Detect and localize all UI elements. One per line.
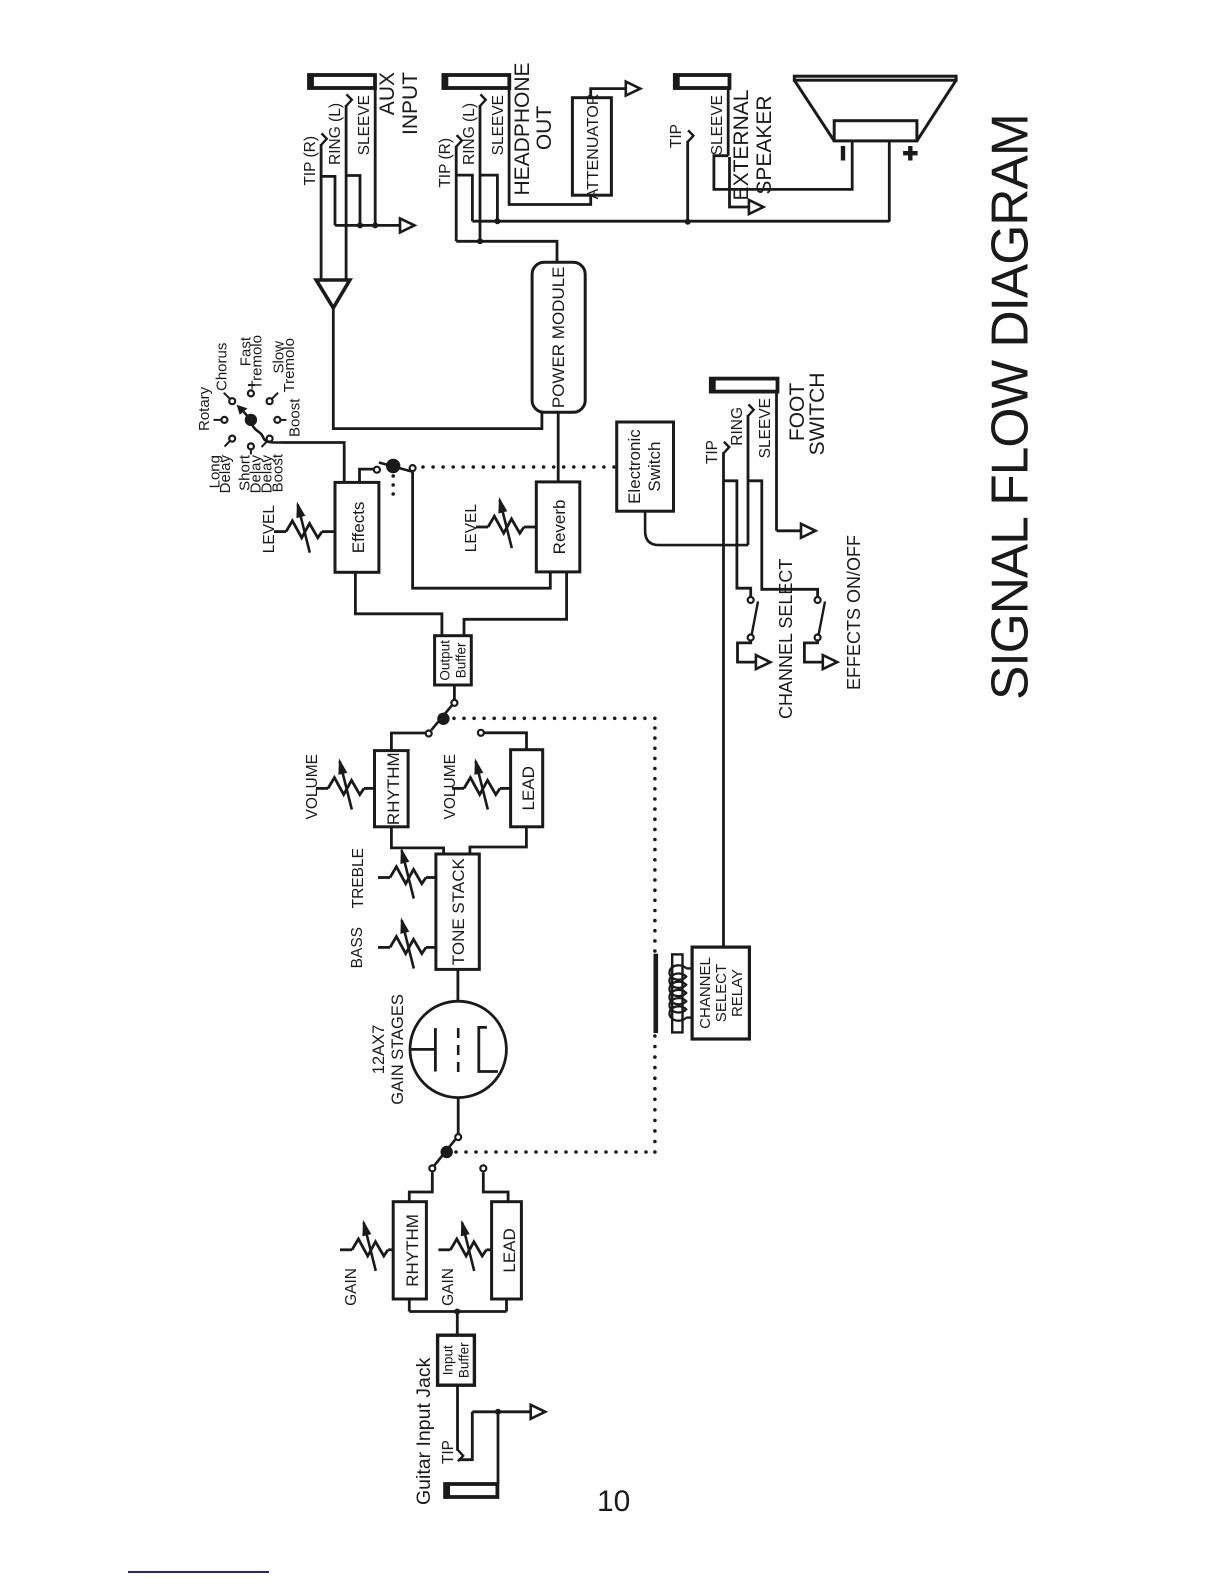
headphone tip contact bbox=[456, 135, 462, 147]
effects bypass switch pivot dot bbox=[386, 459, 400, 473]
potentiometer GAIN bbox=[340, 1248, 352, 1251]
blue underline mark bbox=[128, 1571, 269, 1573]
ground arrow (effects on/off switch) bbox=[823, 655, 838, 669]
effects bypass switch contacts bbox=[374, 467, 380, 473]
svg-text:HEADPHONE: HEADPHONE bbox=[511, 62, 534, 195]
svg-text:GAIN: GAIN bbox=[440, 1268, 457, 1306]
input channel switch pivot dot bbox=[441, 1146, 453, 1158]
svg-text:SIGNAL FLOW DIAGRAM: SIGNAL FLOW DIAGRAM bbox=[981, 114, 1039, 700]
speaker cone bbox=[794, 80, 834, 141]
wire: foot switch sleeve bbox=[775, 391, 778, 531]
svg-text:INPUT: INPUT bbox=[399, 72, 422, 135]
svg-text:Electronic: Electronic bbox=[625, 429, 644, 504]
junction dot headphone ring tap bbox=[477, 238, 483, 244]
aux input jack plug bbox=[309, 75, 375, 88]
mech dotted link relay to input switch bbox=[653, 1034, 657, 1038]
effects on/off manual switch bbox=[815, 597, 821, 603]
wire: headphone ring jog bbox=[480, 175, 497, 221]
svg-text:SWITCH: SWITCH bbox=[806, 373, 829, 456]
wire: to rhythm gain box bbox=[408, 1299, 411, 1312]
wire: ext speaker sleeve bbox=[727, 88, 730, 156]
12AX7 grid lead bbox=[410, 1048, 435, 1051]
rotary selector pivot dot bbox=[245, 414, 257, 426]
rotary contact Fast Tremolo bbox=[248, 390, 254, 396]
wire: sleeve to speaker minus bbox=[714, 141, 852, 190]
wire: switch to output buffer bbox=[453, 685, 456, 700]
wire: guitar tip to input buffer bbox=[456, 1385, 459, 1450]
guitar input jack plug bbox=[445, 1484, 497, 1497]
potentiometer TREBLE bbox=[378, 876, 390, 879]
svg-text:CHANNEL: CHANNEL bbox=[697, 957, 714, 1029]
foot switch tip contact bbox=[724, 442, 730, 454]
mech dots below pivot bbox=[391, 474, 395, 478]
svg-text:LEVEL: LEVEL bbox=[463, 504, 480, 553]
wire: headphone sleeve to attenuator bbox=[509, 88, 591, 205]
wire: headphone tip line bbox=[455, 146, 458, 242]
svg-text:TIP: TIP bbox=[440, 1440, 457, 1464]
wire: rhythm gain to channel switch bbox=[409, 1172, 432, 1201]
junction dot gain splitter bbox=[454, 1309, 460, 1315]
wire: aux sleeve bbox=[374, 88, 377, 225]
svg-text:RHYTHM: RHYTHM bbox=[403, 1214, 422, 1287]
svg-text:SPEAKER: SPEAKER bbox=[753, 95, 776, 194]
label minus terminal bbox=[841, 146, 845, 161]
external speaker jack plug bbox=[675, 75, 730, 88]
svg-text:Boost: Boost bbox=[286, 398, 303, 437]
wire: lead volume to output switch bbox=[484, 733, 527, 750]
junction dot ext speaker tip bbox=[685, 219, 691, 225]
wire: reverb to power module bbox=[557, 412, 560, 482]
channel select relay box bbox=[692, 947, 749, 1039]
svg-text:Tremolo: Tremolo bbox=[248, 335, 265, 389]
wire: output buffer to reverb bbox=[464, 572, 567, 636]
wire: aux ground rail bbox=[335, 224, 400, 227]
ground arrow (guitar jack) bbox=[531, 1405, 546, 1419]
ground arrow (foot switch) bbox=[801, 524, 816, 538]
input channel select switch contacts bbox=[429, 1165, 435, 1171]
aux tip contact bbox=[321, 133, 327, 145]
wire: aux mix into power module bbox=[333, 308, 542, 429]
rotary contact Delay Boost bbox=[267, 436, 273, 442]
wire: guitar ground rail bbox=[472, 1410, 530, 1413]
junction dot headphone jog rail bbox=[494, 218, 500, 224]
headphone jack plug bbox=[443, 75, 509, 88]
12AX7 tube circle bbox=[410, 1001, 506, 1097]
rotary effects selector wire bbox=[252, 424, 281, 443]
wire: foot ring line bbox=[747, 415, 750, 545]
svg-text:Input: Input bbox=[441, 1345, 456, 1375]
wire: aux ring shunt jog bbox=[346, 176, 360, 226]
dotted control line to electronic switch bbox=[421, 465, 425, 469]
input buffer box bbox=[438, 1335, 475, 1385]
potentiometer BASS bbox=[378, 946, 390, 949]
svg-text:VOLUME: VOLUME bbox=[304, 754, 321, 819]
potentiometer LEVEL bbox=[274, 530, 286, 533]
svg-text:EFFECTS ON/OFF: EFFECTS ON/OFF bbox=[844, 535, 864, 690]
electronic switch box bbox=[617, 422, 674, 511]
foot switch ring contact bbox=[748, 404, 754, 416]
wire: tone stack to rhythm volume bbox=[391, 827, 443, 854]
wire: dry bypass rail bbox=[413, 472, 551, 589]
svg-text:Boost: Boost bbox=[269, 453, 286, 492]
svg-text:Effects: Effects bbox=[349, 502, 368, 554]
wire: sleeve to ground bbox=[730, 157, 749, 207]
svg-text:TONE STACK: TONE STACK bbox=[449, 858, 468, 966]
svg-text:SELECT: SELECT bbox=[713, 964, 730, 1022]
svg-text:TIP: TIP bbox=[668, 124, 685, 148]
svg-text:LEAD: LEAD bbox=[500, 1228, 519, 1272]
12AX7 internal dashed divider bbox=[457, 1028, 460, 1072]
ground arrow (attenuator) bbox=[626, 82, 641, 96]
svg-text:SLEEVE: SLEEVE bbox=[490, 95, 507, 155]
svg-text:POWER MODULE: POWER MODULE bbox=[549, 266, 568, 408]
wire: rhythm volume to output switch bbox=[391, 733, 425, 751]
wire: switch to 12AX7 bbox=[457, 1098, 460, 1135]
potentiometer GAIN bbox=[438, 1248, 450, 1251]
svg-text:RING (L): RING (L) bbox=[461, 103, 478, 165]
ground arrow (ext speaker) bbox=[749, 200, 764, 214]
rhythm gain box bbox=[393, 1202, 426, 1299]
effects box bbox=[335, 482, 379, 572]
svg-text:SLEEVE: SLEEVE bbox=[356, 95, 373, 155]
wire: power module output bbox=[456, 241, 557, 262]
svg-text:GAIN: GAIN bbox=[343, 1268, 360, 1306]
svg-text:OUT: OUT bbox=[533, 106, 556, 151]
wire: sleeve down to ground bbox=[777, 529, 802, 532]
wire: headphone ring line bbox=[479, 105, 482, 241]
junction dot aux ring shunt bbox=[357, 222, 363, 228]
wire: foot tip jog to channel switch bbox=[724, 481, 751, 597]
wire: foot tip to relay bbox=[722, 452, 725, 947]
12AX7 grid bar bbox=[434, 1028, 437, 1071]
relay core bar bbox=[672, 954, 682, 1032]
wire: aux tip shunt jog bbox=[321, 176, 335, 225]
wire: guitar tip shunt jog bbox=[459, 1412, 473, 1460]
junction dot aux sleeve bbox=[372, 222, 378, 228]
output channel switch arm bbox=[431, 706, 452, 731]
guitar jack tip contact bbox=[458, 1450, 464, 1462]
rotary contact Chorus bbox=[229, 398, 235, 404]
input channel switch arm bbox=[434, 1140, 455, 1166]
svg-text:Delay: Delay bbox=[247, 455, 264, 494]
tone stack box bbox=[436, 854, 479, 969]
svg-text:LEVEL: LEVEL bbox=[261, 505, 278, 554]
svg-text:Buffer: Buffer bbox=[454, 642, 469, 678]
svg-text:Chorus: Chorus bbox=[214, 343, 231, 391]
relay armature thick bar bbox=[654, 954, 659, 1033]
svg-text:TREBLE: TREBLE bbox=[350, 848, 367, 908]
svg-text:12AX7: 12AX7 bbox=[370, 1025, 388, 1075]
wire: ring to electronic switch bbox=[645, 511, 748, 545]
rhythm volume box bbox=[375, 751, 409, 827]
rotary contact Short Delay bbox=[248, 443, 254, 449]
svg-text:Switch: Switch bbox=[645, 442, 664, 492]
output buffer box bbox=[435, 636, 472, 685]
12AX7 plate bracket bbox=[479, 1027, 498, 1071]
wire: attenuator to ground bbox=[591, 89, 626, 98]
svg-text:RHYTHM: RHYTHM bbox=[384, 752, 403, 825]
rotary contact Rotary bbox=[221, 417, 227, 423]
wire: guitar sleeve to ground rail bbox=[497, 1412, 500, 1484]
wire: 12AX7 to tone stack bbox=[456, 969, 459, 1001]
ground arrow (aux jack) bbox=[400, 218, 415, 232]
svg-text:BASS: BASS bbox=[349, 927, 366, 968]
junction dot guitar sleeve/ground bbox=[495, 1409, 501, 1415]
svg-text:ATTENUATOR: ATTENUATOR bbox=[585, 94, 602, 200]
rotary contact Slow Tremolo bbox=[267, 398, 273, 404]
svg-text:TIP: TIP bbox=[704, 440, 721, 464]
svg-text:VOLUME: VOLUME bbox=[442, 754, 459, 819]
reverb box bbox=[536, 482, 580, 572]
svg-text:Buffer: Buffer bbox=[457, 1342, 472, 1378]
wire: input buffer to gain junction bbox=[456, 1312, 459, 1336]
wire: ext speaker tip line bbox=[686, 141, 689, 222]
rotary contact Long Delay bbox=[229, 436, 235, 442]
headphone ring contact bbox=[480, 94, 486, 106]
output channel switch pivot dot bbox=[437, 713, 449, 725]
svg-text:TIP (R): TIP (R) bbox=[302, 136, 319, 186]
wire: gain splitter rail bbox=[409, 1310, 506, 1313]
lead volume box bbox=[511, 750, 543, 827]
rotary selector arm arrow bbox=[244, 412, 251, 420]
relay coil bbox=[686, 967, 692, 969]
svg-text:Guitar Input Jack: Guitar Input Jack bbox=[413, 1357, 435, 1505]
aux ring contact bbox=[346, 94, 352, 106]
speaker rim bbox=[794, 76, 956, 80]
svg-text:Reverb: Reverb bbox=[550, 499, 569, 554]
ground arrow (channel select switch) bbox=[756, 655, 771, 669]
svg-text:RING: RING bbox=[729, 407, 746, 446]
svg-text:SLEEVE: SLEEVE bbox=[757, 398, 774, 458]
label plus terminal bbox=[908, 146, 912, 161]
effects bypass switch arm bbox=[379, 463, 412, 472]
svg-text:CHANNEL SELECT: CHANNEL SELECT bbox=[776, 559, 796, 719]
aux summing amp triangle bbox=[316, 280, 350, 308]
svg-text:Output: Output bbox=[438, 640, 453, 681]
ext speaker tip contact bbox=[688, 130, 694, 142]
wire: lead gain to channel switch bbox=[483, 1172, 508, 1201]
svg-text:Tremolo: Tremolo bbox=[281, 338, 298, 392]
wire: tone stack to lead volume bbox=[470, 827, 527, 854]
lead gain box bbox=[492, 1202, 522, 1299]
svg-text:SLEEVE: SLEEVE bbox=[709, 95, 726, 155]
svg-text:GAIN STAGES: GAIN STAGES bbox=[389, 994, 407, 1105]
wire: headphone tip jog bbox=[456, 175, 472, 221]
power module box bbox=[532, 262, 585, 412]
wire: foot ring jog to effects switch bbox=[748, 481, 818, 597]
wire: to lead gain box bbox=[505, 1299, 508, 1312]
page number bbox=[597, 1485, 630, 1519]
speaker magnet bbox=[834, 121, 917, 141]
potentiometer LEVEL bbox=[476, 526, 488, 529]
wire: effects out to bypass switch bbox=[360, 469, 374, 482]
wire: aux tip to summing amp bbox=[320, 144, 323, 280]
wire: speaker drive rail bbox=[472, 220, 889, 223]
svg-text:RING (L): RING (L) bbox=[327, 103, 344, 165]
potentiometer VOLUME bbox=[452, 787, 464, 790]
svg-text:TIP (R): TIP (R) bbox=[437, 138, 454, 188]
wire: drive rail to speaker plus bbox=[888, 141, 891, 222]
wire: output buffer to effects bbox=[355, 572, 442, 635]
wire: aux ring to summing amp bbox=[345, 105, 348, 280]
potentiometer VOLUME bbox=[316, 787, 328, 790]
svg-text:Delay: Delay bbox=[217, 455, 234, 494]
svg-text:AUX: AUX bbox=[376, 72, 399, 115]
rotary contact Boost bbox=[274, 417, 280, 423]
foot switch jack plug bbox=[711, 379, 778, 392]
mech dotted link relay to output switch bbox=[452, 717, 456, 721]
attenuator box bbox=[572, 98, 611, 196]
svg-text:EXTERNAL: EXTERNAL bbox=[730, 90, 753, 201]
output channel switch contacts bbox=[426, 731, 432, 737]
svg-text:Rotary: Rotary bbox=[196, 386, 213, 431]
svg-text:LEAD: LEAD bbox=[519, 766, 538, 810]
svg-text:RELAY: RELAY bbox=[729, 969, 746, 1017]
channel select manual switch bbox=[748, 597, 754, 603]
